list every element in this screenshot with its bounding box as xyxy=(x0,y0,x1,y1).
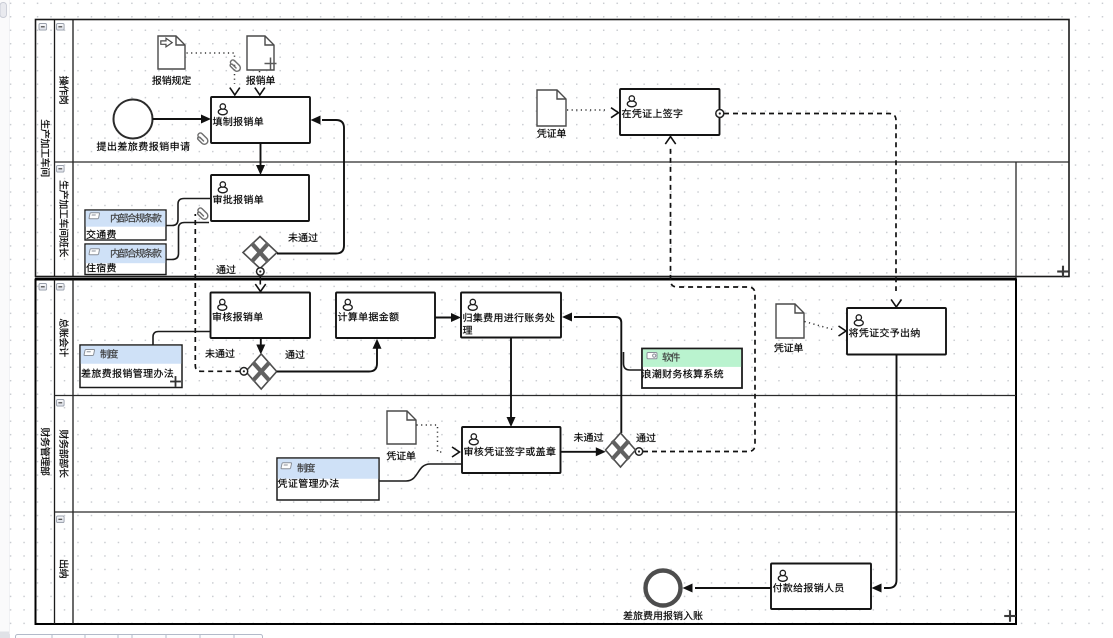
association arrowhead h1 xyxy=(611,108,619,118)
paperclip 审批报销单 xyxy=(196,207,210,221)
open arrow into 在凭证上签字 bottom xyxy=(665,137,675,145)
label 差旅费用报销入账 xyxy=(623,611,702,620)
label 未通过 gw2 xyxy=(288,233,317,242)
lane 出纳 label xyxy=(59,560,68,578)
lane 总账会计 label xyxy=(59,319,68,357)
connector 住宿费→审批报销单 xyxy=(167,223,210,260)
paperclip 填制报销单 xyxy=(196,132,210,146)
pool 财务管理部 label xyxy=(41,428,50,476)
open arrow into 审核报销单 xyxy=(255,284,265,291)
label 凭证单 right xyxy=(774,343,803,352)
plus on 报销单 xyxy=(265,58,277,70)
pool 生产加工车间 frame xyxy=(36,20,1070,277)
lane 财务部部长/出纳 divider xyxy=(55,511,1017,513)
association 凭证单→在凭证上签字 dotted xyxy=(567,109,608,111)
flow 将凭证交予出纳→付款给报销人员 xyxy=(884,355,897,589)
association 凭证单→审核凭证 dotted xyxy=(417,425,445,452)
connector 软件→归集费用 xyxy=(624,352,643,370)
gateway 审核 exclusive xyxy=(246,354,277,389)
association arrowhead h2 xyxy=(839,326,847,336)
pool 生产加工车间 label xyxy=(41,120,50,177)
pool2 resize plus xyxy=(1004,610,1016,622)
task 将凭证交予出纳 xyxy=(847,308,946,355)
task 填制报销单 xyxy=(211,97,310,143)
pool 财务管理部 frame xyxy=(36,280,1017,625)
connector 交通费→审批报销单 xyxy=(167,199,212,226)
lane 财务部部长 label xyxy=(59,430,68,478)
flow 未通过 gw4→归集费用 xyxy=(574,317,621,433)
lane2 collapse button xyxy=(57,166,65,173)
connector 凭证管理办法→审核凭证 xyxy=(379,464,462,481)
flow 审核凭证→gw4 xyxy=(561,451,598,453)
pool 财务管理部 top thick border xyxy=(35,278,1016,281)
task 计算单据金额 xyxy=(336,293,435,339)
annotation 内部合规条款/交通费 xyxy=(85,210,166,240)
association arrowhead h3 xyxy=(452,447,460,457)
document 报销规定 xyxy=(158,36,185,69)
association 报销规定→报销单 dotted xyxy=(187,53,235,84)
annotation 软件/浪潮财务核算系统 xyxy=(642,349,742,389)
label 未通过 gw3 xyxy=(205,349,234,358)
document 凭证单 lane4 xyxy=(387,411,416,444)
pool1 resize plus xyxy=(1057,266,1069,278)
anchor dot at 在凭证上签字 right xyxy=(716,110,724,118)
message 未通过 gw3→审批报销单 dashed xyxy=(195,214,240,371)
task 审核报销单 xyxy=(211,293,311,339)
pool 财务管理部 header divider xyxy=(54,280,56,625)
bottom sheet tabs xyxy=(16,635,263,638)
task 审核凭证签字或盖章 xyxy=(462,427,561,473)
annotation 制度/凭证管理办法 xyxy=(277,458,379,500)
label 凭证单 lane4 xyxy=(387,451,416,460)
left scrollbar strip xyxy=(0,0,10,638)
flow 未通过 gw2→填制报销单 xyxy=(277,120,344,254)
label 通过 gw4 xyxy=(636,433,655,442)
label 通过 gw2 xyxy=(216,265,235,274)
lane5 collapse button xyxy=(57,516,65,523)
lane2 right boundary segment xyxy=(1015,162,1017,279)
start event 提出差旅费报销申请 xyxy=(114,100,153,139)
pool2 collapse button xyxy=(39,284,47,291)
label 报销规定 xyxy=(152,76,191,85)
lane 总账会计/财务部部长 divider xyxy=(55,395,1017,397)
gateway 审批 exclusive xyxy=(243,237,277,269)
association 凭证单→将凭证交予出纳 dotted xyxy=(805,322,835,330)
end event 差旅费用报销入账 xyxy=(646,571,681,606)
annotation 内部合规条款/住宿费 xyxy=(85,244,166,275)
document 报销单 xyxy=(247,36,274,70)
flow 付款给报销人员→end xyxy=(695,587,771,589)
connector 制度→审核报销单 xyxy=(153,332,210,346)
document 凭证单 right xyxy=(776,304,804,338)
paperclip on association xyxy=(228,59,242,73)
flow 通过 gw3→计算单据金额 xyxy=(277,347,377,372)
lane 操作岗 label xyxy=(59,76,68,104)
anchor dot gw2 bottom xyxy=(257,268,265,276)
association arrowhead v1 xyxy=(230,88,240,95)
lane3 collapse button xyxy=(57,284,65,291)
gateway 凭证审核 exclusive xyxy=(606,433,636,467)
task 付款给报销人员 xyxy=(771,564,871,610)
label 未通过 gw4 xyxy=(574,433,603,442)
lane 生产加工车间班长 label xyxy=(59,181,68,257)
flow 归集费用→审核凭证签字或盖章 xyxy=(510,338,512,419)
task 归集费用进行账务处理 xyxy=(461,293,561,338)
association 报销单→填制报销单 dotted xyxy=(259,71,261,84)
plus on 制度 box xyxy=(170,376,181,387)
lane4 collapse button xyxy=(57,400,65,407)
label 通过 gw3 xyxy=(285,350,304,359)
pool 财务管理部 lane-title divider xyxy=(72,280,74,625)
flow start→填制报销单 xyxy=(153,118,203,120)
lane1 collapse button xyxy=(57,24,65,31)
message 通过 gw4→在凭证上签字 dashed xyxy=(643,146,755,452)
pool 生产加工车间 header divider xyxy=(54,20,56,277)
lane 操作岗 / 生产加工车间班长 divider xyxy=(55,161,1070,163)
label 报销单 xyxy=(246,76,275,85)
flow 填制报销单→审批报销单 xyxy=(260,143,262,167)
pool1 collapse button xyxy=(39,24,47,31)
association arrowhead v2 xyxy=(255,88,265,95)
anchor dot gw3 left xyxy=(240,368,248,376)
flow gw2→审核报销单 crossing pools xyxy=(259,269,261,285)
message 在凭证上签字→将凭证交予出纳 dashed xyxy=(724,114,896,292)
label 凭证单 top xyxy=(537,129,566,138)
pool 生产加工车间 lane-title divider xyxy=(72,20,74,277)
task 审批报销单 xyxy=(211,175,309,221)
flow 计算单据金额→归集费用 xyxy=(435,317,452,319)
task 在凭证上签字 xyxy=(620,89,720,135)
flow 审核报销单→gw3 xyxy=(260,338,262,346)
message open arrow into 将凭证交予出纳 xyxy=(891,299,901,307)
annotation 制度/差旅费报销管理办法 xyxy=(80,345,182,388)
label 提出差旅费报销申请 xyxy=(97,142,190,151)
anchor dot gw4 right xyxy=(635,448,642,455)
document 凭证单 top xyxy=(537,90,566,126)
